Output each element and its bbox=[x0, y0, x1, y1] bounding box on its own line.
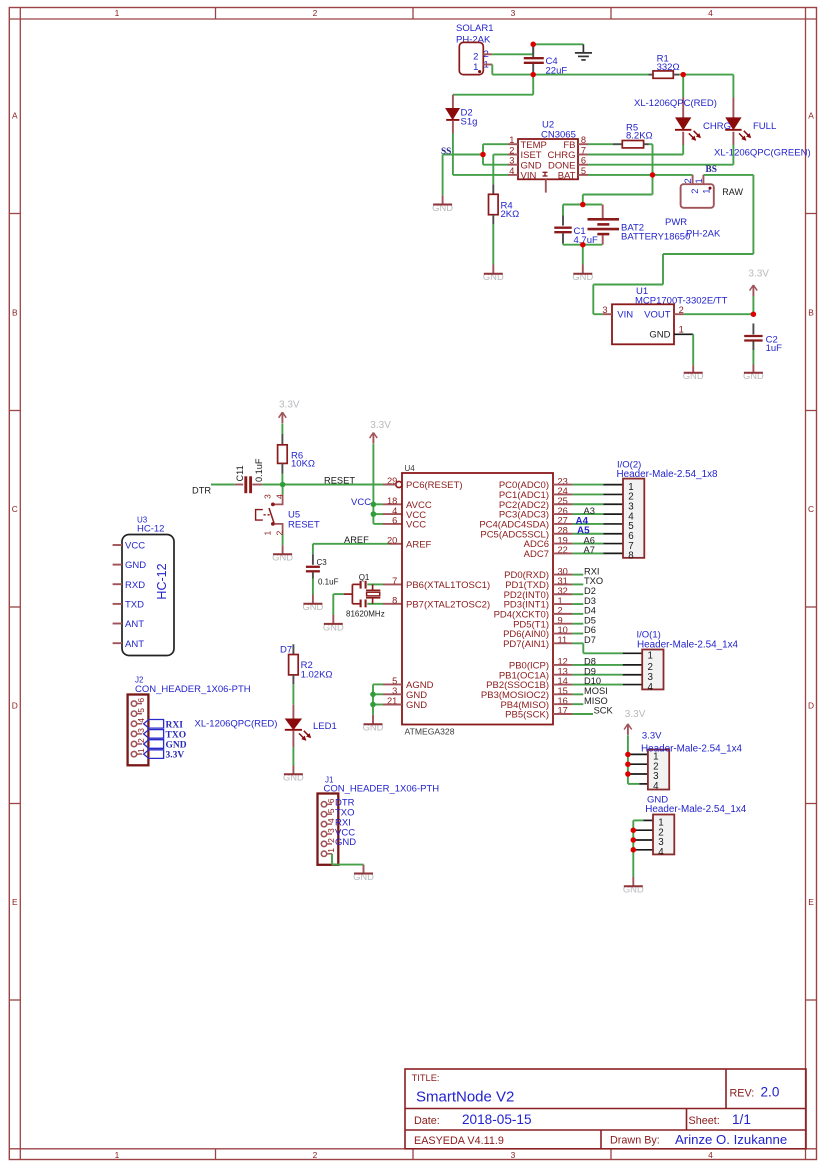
svg-text:J2: J2 bbox=[135, 676, 144, 685]
svg-text:1: 1 bbox=[694, 178, 704, 183]
svg-text:1: 1 bbox=[115, 8, 120, 18]
svg-text:E: E bbox=[12, 897, 18, 907]
svg-text:2KΩ: 2KΩ bbox=[501, 209, 520, 220]
svg-text:8: 8 bbox=[581, 135, 586, 145]
svg-text:C3: C3 bbox=[317, 558, 328, 567]
svg-text:VIN: VIN bbox=[617, 309, 633, 320]
svg-text:5: 5 bbox=[136, 708, 146, 713]
svg-text:VCC: VCC bbox=[125, 541, 145, 552]
svg-text:GND: GND bbox=[335, 837, 356, 848]
svg-text:2: 2 bbox=[136, 738, 146, 743]
svg-text:PB5(SCK): PB5(SCK) bbox=[505, 710, 549, 721]
svg-text:RESET: RESET bbox=[288, 519, 320, 530]
svg-text:MISO: MISO bbox=[584, 696, 608, 706]
svg-text:20: 20 bbox=[387, 536, 397, 546]
svg-text:TXD: TXD bbox=[125, 600, 144, 611]
svg-text:D: D bbox=[12, 700, 18, 710]
svg-text:Header-Male-2.54_1x4: Header-Male-2.54_1x4 bbox=[637, 639, 739, 650]
svg-text:1: 1 bbox=[263, 530, 273, 535]
svg-text:4.7uF: 4.7uF bbox=[574, 235, 598, 246]
svg-text:CON_HEADER_1X06-PTH: CON_HEADER_1X06-PTH bbox=[324, 784, 440, 795]
svg-text:GND: GND bbox=[406, 700, 427, 711]
svg-text:A6: A6 bbox=[584, 535, 595, 545]
svg-text:D8: D8 bbox=[584, 657, 596, 667]
svg-text:Arinze O. Izukanne: Arinze O. Izukanne bbox=[675, 1132, 787, 1147]
svg-text:1: 1 bbox=[115, 1150, 120, 1160]
svg-text:Date:: Date: bbox=[414, 1115, 440, 1127]
svg-text:4: 4 bbox=[136, 718, 146, 723]
svg-text:3.3V: 3.3V bbox=[642, 731, 662, 742]
svg-text:VCC: VCC bbox=[406, 520, 426, 531]
svg-text:HC-12: HC-12 bbox=[137, 524, 164, 535]
svg-text:SOLAR1: SOLAR1 bbox=[456, 23, 494, 34]
svg-text:2: 2 bbox=[313, 8, 318, 18]
svg-text:Sheet:: Sheet: bbox=[689, 1115, 720, 1127]
svg-text:7: 7 bbox=[392, 576, 397, 586]
svg-text:B: B bbox=[12, 307, 18, 317]
svg-text:3.3V: 3.3V bbox=[748, 269, 769, 280]
svg-text:7: 7 bbox=[581, 146, 586, 156]
svg-text:RAW: RAW bbox=[722, 187, 743, 197]
svg-text:4: 4 bbox=[708, 1150, 713, 1160]
svg-text:SmartNode V2: SmartNode V2 bbox=[416, 1088, 514, 1105]
svg-text:1: 1 bbox=[326, 848, 336, 853]
svg-text:PH-2AK: PH-2AK bbox=[456, 35, 491, 46]
svg-text:D3: D3 bbox=[584, 596, 596, 606]
svg-text:PB6(XTAL1TOSC1): PB6(XTAL1TOSC1) bbox=[406, 580, 490, 591]
svg-text:D10: D10 bbox=[584, 676, 601, 686]
svg-text:4: 4 bbox=[647, 682, 653, 693]
svg-text:TITLE:: TITLE: bbox=[412, 1073, 440, 1083]
svg-text:ATMEGA328: ATMEGA328 bbox=[405, 727, 455, 737]
svg-text:B: B bbox=[808, 307, 814, 317]
svg-text:1uF: 1uF bbox=[766, 343, 783, 354]
svg-text:2: 2 bbox=[690, 189, 700, 194]
svg-text:CHRG: CHRG bbox=[703, 121, 731, 132]
svg-text:D4: D4 bbox=[584, 606, 596, 616]
svg-text:DTR: DTR bbox=[192, 486, 211, 496]
svg-text:BATTERY18650: BATTERY18650 bbox=[621, 232, 690, 243]
svg-text:D6: D6 bbox=[584, 625, 596, 635]
svg-text:REV:: REV: bbox=[730, 1087, 755, 1099]
svg-text:PC6(RESET): PC6(RESET) bbox=[406, 480, 462, 491]
svg-text:C: C bbox=[808, 504, 814, 514]
svg-text:Header-Male-2.54_1x8: Header-Male-2.54_1x8 bbox=[617, 469, 719, 480]
svg-text:4: 4 bbox=[274, 494, 284, 499]
svg-text:EASYEDA V4.11.9: EASYEDA V4.11.9 bbox=[414, 1135, 504, 1147]
svg-text:RXD: RXD bbox=[125, 580, 145, 591]
svg-text:A: A bbox=[808, 110, 814, 120]
svg-text:3.3V: 3.3V bbox=[370, 420, 391, 431]
svg-text:GND: GND bbox=[166, 741, 187, 751]
svg-text:PB7(XTAL2TOSC2): PB7(XTAL2TOSC2) bbox=[406, 600, 490, 611]
svg-text:RXI: RXI bbox=[166, 720, 184, 730]
svg-text:XL-1206QPC(RED): XL-1206QPC(RED) bbox=[195, 718, 278, 729]
svg-text:D9: D9 bbox=[584, 666, 596, 676]
svg-text:D: D bbox=[808, 700, 814, 710]
svg-text:2: 2 bbox=[509, 146, 514, 156]
svg-text:PD7(AIN1): PD7(AIN1) bbox=[503, 639, 549, 650]
svg-text:2018-05-15: 2018-05-15 bbox=[462, 1112, 532, 1127]
svg-text:BS: BS bbox=[706, 165, 717, 175]
svg-text:Drawn By:: Drawn By: bbox=[610, 1134, 660, 1146]
svg-text:A7: A7 bbox=[584, 545, 595, 555]
svg-text:4: 4 bbox=[509, 166, 514, 176]
svg-text:1: 1 bbox=[473, 62, 478, 73]
svg-text:6: 6 bbox=[581, 156, 586, 166]
svg-text:1.02KΩ: 1.02KΩ bbox=[301, 669, 333, 680]
svg-text:Header-Male-2.54_1x4: Header-Male-2.54_1x4 bbox=[641, 743, 743, 754]
svg-text:6: 6 bbox=[392, 516, 397, 526]
svg-text:PWR: PWR bbox=[665, 217, 687, 228]
svg-text:3.3V: 3.3V bbox=[166, 751, 185, 761]
svg-text:LED1: LED1 bbox=[313, 721, 337, 732]
svg-text:1: 1 bbox=[679, 325, 684, 335]
svg-text:CON_HEADER_1X06-PTH: CON_HEADER_1X06-PTH bbox=[135, 684, 251, 695]
svg-text:3: 3 bbox=[263, 494, 273, 499]
svg-text:3: 3 bbox=[511, 8, 516, 18]
svg-text:2.0: 2.0 bbox=[761, 1085, 780, 1100]
svg-text:4: 4 bbox=[658, 847, 664, 858]
svg-text:D5: D5 bbox=[584, 615, 596, 625]
svg-text:VIN: VIN bbox=[521, 171, 537, 182]
svg-text:3: 3 bbox=[509, 156, 514, 166]
svg-text:8: 8 bbox=[392, 596, 397, 606]
svg-text:SCK: SCK bbox=[594, 706, 614, 716]
svg-text:S1g: S1g bbox=[461, 116, 478, 127]
svg-text:HC-12: HC-12 bbox=[155, 563, 169, 599]
svg-text:18: 18 bbox=[387, 496, 397, 506]
svg-text:2: 2 bbox=[274, 530, 284, 535]
svg-text:Header-Male-2.54_1x4: Header-Male-2.54_1x4 bbox=[645, 804, 747, 815]
svg-text:4: 4 bbox=[392, 506, 397, 516]
svg-text:0.1uF: 0.1uF bbox=[254, 458, 264, 482]
svg-text:3.3V: 3.3V bbox=[279, 400, 300, 411]
svg-text:PH-2AK: PH-2AK bbox=[686, 228, 721, 239]
svg-text:Q1: Q1 bbox=[359, 573, 370, 582]
svg-text:81620MHz: 81620MHz bbox=[346, 609, 385, 618]
svg-text:C: C bbox=[12, 504, 18, 514]
svg-text:VOUT: VOUT bbox=[644, 309, 671, 320]
svg-text:AREF: AREF bbox=[406, 540, 432, 551]
svg-text:3: 3 bbox=[136, 728, 146, 733]
svg-text:VCC: VCC bbox=[351, 497, 371, 508]
svg-text:2: 2 bbox=[313, 1150, 318, 1160]
svg-text:C11: C11 bbox=[235, 465, 245, 481]
svg-text:4: 4 bbox=[708, 8, 713, 18]
svg-text:XL-1206QPC(RED): XL-1206QPC(RED) bbox=[634, 98, 717, 109]
svg-text:ANT: ANT bbox=[125, 619, 144, 630]
svg-text:4: 4 bbox=[653, 781, 659, 792]
svg-text:ANT: ANT bbox=[125, 639, 144, 650]
svg-text:RXI: RXI bbox=[584, 566, 600, 576]
svg-text:10KΩ: 10KΩ bbox=[291, 459, 315, 470]
svg-text:MOSI: MOSI bbox=[584, 686, 608, 696]
svg-text:U4: U4 bbox=[405, 464, 416, 473]
svg-text:BAT: BAT bbox=[558, 171, 576, 182]
svg-text:1: 1 bbox=[509, 135, 514, 145]
svg-text:1: 1 bbox=[136, 748, 146, 753]
svg-text:3.3V: 3.3V bbox=[625, 709, 646, 720]
svg-text:GND: GND bbox=[125, 560, 146, 571]
svg-text:2: 2 bbox=[683, 178, 693, 183]
svg-text:TXO: TXO bbox=[166, 730, 187, 740]
svg-text:XL-1206QPC(GREEN): XL-1206QPC(GREEN) bbox=[714, 148, 811, 159]
svg-text:TXO: TXO bbox=[584, 576, 603, 586]
svg-text:A3: A3 bbox=[584, 506, 595, 516]
svg-text:22uF: 22uF bbox=[546, 65, 568, 76]
svg-text:5: 5 bbox=[581, 166, 586, 176]
svg-text:3: 3 bbox=[511, 1150, 516, 1160]
svg-text:D2: D2 bbox=[584, 586, 596, 596]
svg-text:0.1uF: 0.1uF bbox=[318, 578, 339, 587]
svg-text:FULL: FULL bbox=[753, 121, 776, 132]
svg-text:GND: GND bbox=[649, 330, 670, 341]
svg-text:A: A bbox=[12, 110, 18, 120]
svg-text:D7: D7 bbox=[584, 635, 596, 645]
svg-text:1/1: 1/1 bbox=[732, 1112, 751, 1127]
svg-text:E: E bbox=[808, 897, 814, 907]
svg-text:6: 6 bbox=[136, 698, 146, 703]
svg-text:1: 1 bbox=[647, 651, 652, 662]
svg-text:ADC7: ADC7 bbox=[524, 549, 549, 560]
svg-text:8: 8 bbox=[628, 551, 634, 562]
